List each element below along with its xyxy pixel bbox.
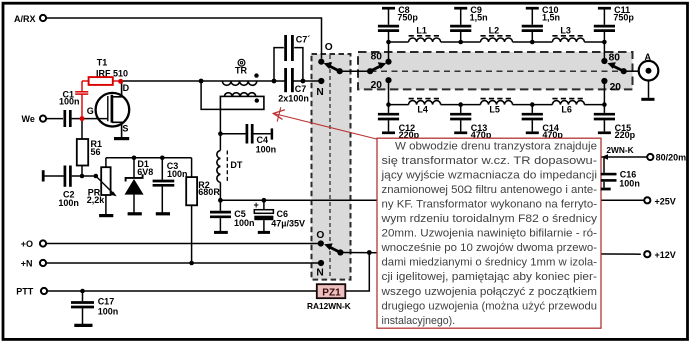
svg-text:2,2k: 2,2k	[87, 195, 106, 205]
band switch right: contact 80	[601, 58, 607, 64]
terminal A/RX	[14, 14, 46, 24]
capacitor C16	[601, 157, 640, 189]
inductor L4	[409, 99, 441, 115]
svg-text:80/20m: 80/20m	[656, 153, 687, 163]
svg-text:L2: L2	[489, 26, 500, 36]
capacitor C14	[522, 105, 564, 140]
wire C1 to gate G	[72, 118, 108, 120]
svg-text:C17: C17	[98, 297, 115, 307]
wire bias rail PR/D1/C3/R2	[106, 157, 192, 159]
node C7 branch right	[301, 79, 306, 84]
svg-text:2x100n: 2x100n	[278, 94, 309, 104]
relay PZ1 enclosure (grey dashed box)	[312, 54, 351, 280]
terminal 80/20m	[647, 153, 686, 163]
inductor L1	[409, 26, 441, 42]
relay PZ1 coil box	[317, 284, 346, 298]
svg-text:1,5n: 1,5n	[470, 12, 488, 22]
inductor L5	[481, 99, 513, 115]
capacitor C5	[210, 200, 255, 231]
svg-text:We: We	[22, 114, 35, 124]
resistor R2 680R	[186, 158, 220, 263]
wire +O rail	[46, 243, 318, 245]
svg-text:80: 80	[371, 52, 383, 63]
capacitor C2	[43, 166, 82, 208]
band switch right: contact 20	[601, 78, 607, 84]
svg-text:+12V: +12V	[655, 250, 676, 260]
capacitor C7	[278, 68, 309, 104]
svg-text:+25V: +25V	[655, 196, 676, 206]
svg-text:wszego uzwojenia połączyć z po: wszego uzwojenia połączyć z początkiem	[380, 286, 597, 298]
svg-text:S: S	[122, 123, 128, 133]
antenna connector A	[639, 52, 659, 81]
wire We to C1	[46, 118, 63, 120]
svg-text:1,5n: 1,5n	[542, 12, 560, 22]
wire DT to C5 rail	[219, 182, 221, 200]
node R1/C2/PR	[80, 174, 85, 179]
node R2 / +N rail	[189, 261, 194, 266]
svg-text:O: O	[316, 230, 324, 241]
svg-text:L6: L6	[561, 104, 572, 114]
capacitor C13	[450, 105, 492, 140]
svg-text:RA12WN-K: RA12WN-K	[307, 301, 351, 311]
relay switch bottom: contact O	[318, 240, 324, 246]
red callout arrow to TR	[273, 107, 376, 139]
wire +N rail	[46, 262, 318, 264]
svg-text:wym rdzeniu toroidalnym F82 o: wym rdzeniu toroidalnym F82 o średnicy	[380, 213, 597, 225]
relay switch top: contact N	[318, 78, 324, 84]
relay switch top: contact O	[318, 59, 324, 65]
red node drain	[118, 79, 123, 84]
inductor L2	[481, 26, 513, 42]
wire wiper to +12V	[340, 253, 640, 255]
svg-text:L4: L4	[417, 104, 428, 114]
node TR primary left	[199, 79, 204, 84]
svg-text:100n: 100n	[256, 144, 277, 154]
node C4	[218, 131, 223, 136]
ground (A)	[641, 98, 654, 101]
svg-text:się transformator w.cz. TR dop: się transformator w.cz. TR dopasowu-	[382, 155, 598, 167]
capacitor C9	[450, 5, 488, 42]
relay switch bottom: contact N	[318, 260, 324, 266]
node PZ1 coil/wiper	[367, 250, 372, 255]
capacitor C10	[522, 5, 560, 42]
svg-text:L1: L1	[416, 26, 427, 36]
wire 80m column left	[388, 42, 390, 62]
capacitor C3	[153, 158, 188, 213]
terminal We	[22, 114, 47, 124]
svg-text:56: 56	[91, 147, 101, 157]
ground (C3)	[156, 212, 170, 215]
node D1	[132, 156, 137, 161]
ground (source of T1)	[114, 137, 129, 140]
red feedback resistor	[82, 77, 121, 85]
svg-text:N: N	[316, 87, 323, 98]
band switch right: wiper	[607, 62, 627, 74]
red feedback capacitor (C1 red)	[75, 81, 88, 119]
wire 80m column right	[603, 42, 605, 61]
terminal +25V	[644, 196, 676, 206]
svg-text:2WN-K: 2WN-K	[606, 145, 633, 155]
svg-text:20: 20	[371, 80, 383, 91]
capacitor C12	[378, 105, 420, 140]
terminal +12V	[644, 250, 676, 260]
transformer TR secondary winding	[220, 93, 264, 110]
inductor L6	[552, 99, 584, 115]
svg-text:DT: DT	[230, 160, 242, 170]
svg-text:750p: 750p	[613, 12, 634, 22]
wire relay wiper to band wiper	[340, 70, 370, 72]
capacitor C6 electrolytic	[254, 200, 306, 231]
wire 80/20m with arrowhead	[602, 154, 648, 159]
svg-text:instalacyjnego).: instalacyjnego).	[382, 315, 456, 327]
svg-text:C7: C7	[295, 84, 307, 94]
wire TR secondary down	[219, 109, 221, 150]
svg-text:T1: T1	[97, 58, 108, 68]
potentiometer PR 2,2k	[87, 158, 116, 214]
node C7 branch left	[272, 79, 277, 84]
svg-text:N: N	[316, 268, 323, 279]
band switch left: contact 20	[385, 77, 391, 83]
wire A to ground	[648, 81, 650, 98]
svg-text:A: A	[645, 52, 652, 62]
svg-text:znamionowej 50Ω filtru antenow: znamionowej 50Ω filtru antenowego i ante…	[382, 184, 598, 196]
svg-text:100n: 100n	[58, 198, 79, 208]
band switch left: contact 80	[385, 59, 391, 65]
inductor DT	[217, 151, 243, 183]
svg-text:80: 80	[609, 52, 621, 63]
node C5	[218, 198, 223, 203]
transistor T1 IRF 510 (MOSFET)	[87, 58, 130, 137]
wire A/RX to relay contact O	[46, 18, 321, 59]
ground (C17)	[74, 324, 92, 327]
capacitor C1	[59, 89, 80, 127]
terminal PTT	[16, 287, 47, 297]
wire +25V rail	[220, 199, 644, 201]
node PR wiper	[94, 174, 99, 179]
svg-text:cji igelitowej, pamiętając aby: cji igelitowej, pamiętając aby koniec pi…	[382, 271, 598, 283]
resistor R1	[77, 121, 102, 176]
capacitor C8	[378, 5, 419, 42]
svg-text:100n: 100n	[98, 306, 119, 316]
ground (C5)	[214, 231, 228, 234]
band switch left: wiper	[367, 62, 386, 74]
svg-text:20mm. Uzwojenia nawinięto bifi: 20mm. Uzwojenia nawinięto bifilarnie - r…	[382, 228, 598, 240]
svg-text:750p: 750p	[397, 12, 418, 22]
terminal +N	[21, 259, 46, 269]
wire PTT rail	[47, 290, 317, 292]
zener diode D1 6V8	[125, 158, 154, 213]
svg-text:dami miedzianymi o średnicy 1m: dami miedzianymi o średnicy 1mm w izola-	[382, 257, 598, 269]
svg-text:6V8: 6V8	[137, 167, 153, 177]
svg-text:L5: L5	[489, 104, 500, 114]
wire TR secondary to drain bus	[201, 81, 220, 109]
relay switch top: wiper	[324, 62, 343, 74]
capacitor C7'	[274, 35, 310, 81]
ground (D1)	[128, 212, 142, 215]
capacitor C17	[71, 291, 118, 324]
svg-text:100n: 100n	[59, 96, 80, 106]
wire 80m filter bus	[389, 41, 605, 43]
capacitor C15	[594, 105, 636, 140]
svg-text:TR: TR	[235, 65, 247, 75]
svg-text:G: G	[87, 106, 94, 116]
wire 20m filter bus	[389, 104, 605, 106]
svg-text:47µ/35V: 47µ/35V	[271, 219, 305, 229]
svg-text:O: O	[325, 42, 333, 53]
red node gate	[80, 116, 85, 121]
svg-text:W obwodzie drenu tranzystora z: W obwodzie drenu tranzystora znajduje	[395, 140, 597, 152]
wire drain bus	[121, 80, 285, 82]
terminal +O	[21, 239, 46, 249]
ground (C16)	[601, 188, 611, 191]
ground (C6)	[258, 231, 270, 234]
note text box	[377, 138, 601, 328]
wire 20m column left	[388, 80, 390, 104]
band switch enclosure 80/20 (grey dashed box)	[358, 52, 633, 89]
wire node to PR wiper	[82, 175, 96, 177]
relay switch bottom: wiper	[324, 243, 343, 255]
ground (PR)	[99, 214, 113, 217]
svg-text:A/RX: A/RX	[14, 14, 36, 24]
node C3	[160, 156, 165, 161]
svg-text:+N: +N	[21, 259, 33, 269]
svg-text:100n: 100n	[234, 218, 255, 228]
svg-text:PTT: PTT	[16, 287, 34, 297]
node C6	[262, 198, 267, 203]
svg-text:C7´: C7´	[296, 35, 311, 45]
svg-text:PZ1: PZ1	[322, 288, 341, 299]
svg-text:+O: +O	[21, 239, 33, 249]
transformer TR primary winding	[222, 59, 258, 85]
svg-text:drugiego uzwojenia (można użyć: drugiego uzwojenia (można użyć przewodu	[382, 300, 598, 312]
svg-text:100n: 100n	[619, 179, 640, 189]
svg-text:wnocześnie po 10 zwojów dwoma: wnocześnie po 10 zwojów dwoma przewo-	[380, 242, 597, 254]
svg-text:D: D	[123, 83, 130, 93]
capacitor C11	[594, 5, 635, 42]
svg-text:+: +	[254, 200, 259, 210]
svg-text:220p: 220p	[615, 130, 636, 140]
wire 20m column right	[603, 81, 605, 105]
svg-text:jący wyjście wzmacniacza do im: jący wyjście wzmacniacza do impedancji	[380, 169, 597, 181]
capacitor C4	[220, 124, 276, 154]
wire PZ1 coil right	[346, 253, 370, 292]
wire band wiper to antenna A	[624, 70, 639, 72]
svg-text:L3: L3	[560, 26, 571, 36]
svg-text:100n: 100n	[167, 169, 188, 179]
inductor L3	[552, 26, 584, 42]
svg-text:680R: 680R	[198, 187, 220, 197]
svg-text:ny KF. Transformator wykonano: ny KF. Transformator wykonano na ferryto…	[382, 199, 598, 211]
node C17	[80, 289, 85, 294]
svg-text:20: 20	[610, 82, 622, 93]
